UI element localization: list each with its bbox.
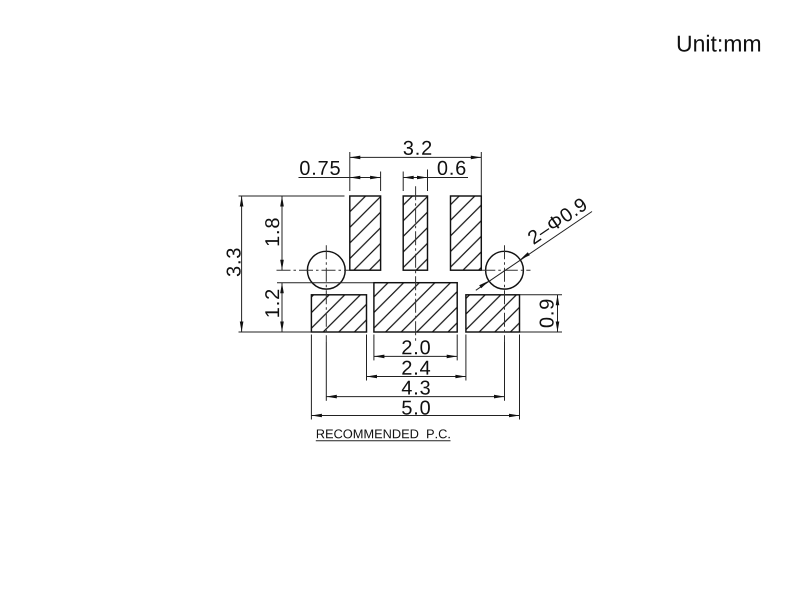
dimension 0.6 top-middle pad width [403,177,468,179]
dimension 1.2 bottom pad height [277,282,374,284]
hole circle left (d0.9) [307,251,345,289]
dimension 3.2 overall top pads [349,152,351,191]
hole circle right (d0.9) [486,251,524,289]
pad bottom-middle (2.0 wide) [374,283,457,332]
dimension 3.3 overall height [239,195,345,197]
dimension 0.9 bottom-right pad height [520,294,563,296]
centerline left-hole horizontal [277,269,350,271]
extension line right hole center [504,342,506,401]
caption RECOMMENDED P.C. underlined [317,429,450,438]
leader line 2-phi0.9 to hole [476,212,592,291]
centerline middle pads vertical [415,186,417,343]
label 2-phi0.9 [527,197,588,245]
pad top-left (0.75 wide) [350,196,381,270]
dimension 4.3 hole pitch [326,396,504,398]
title Unit:mm [678,35,760,52]
pad top-middle (0.6 wide) [403,196,427,270]
dimension 2.0 bottom-middle pad width [373,335,375,361]
centerline right-hole vertical [504,245,506,342]
pad bottom-left [311,295,366,332]
centerline left-hole vertical [325,245,327,342]
dimension 1.8 top pad height [281,196,283,270]
centerline right-hole horizontal [481,269,530,271]
extension line left hole center [325,342,327,401]
dimension 0.75 top-left pad width [299,177,381,179]
pad bottom-right [466,295,520,332]
dimension 5.0 overall width [310,335,312,420]
dimension 2.4 inner span [366,335,368,381]
pad top-right (0.75 wide) [451,196,482,270]
